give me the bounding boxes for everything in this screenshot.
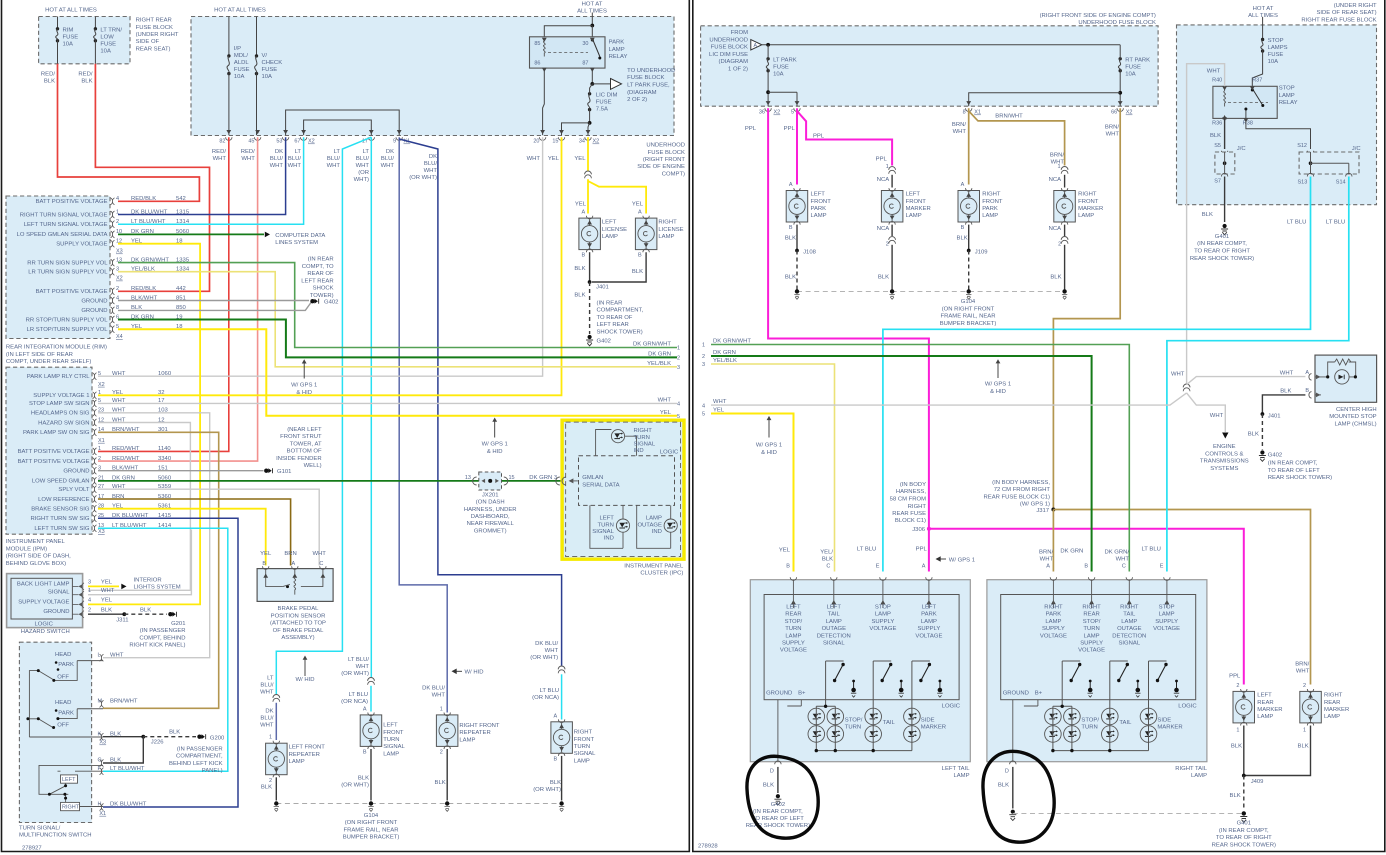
svg-text:G401: G401 xyxy=(1237,821,1251,827)
wire K BLK to J226 xyxy=(103,736,143,738)
svg-text:X3: X3 xyxy=(116,249,123,255)
wire V/CHECK fuse feed xyxy=(256,17,258,56)
wire relay87 to LIC DIM fuse xyxy=(590,84,593,94)
svg-text:(IN REAR COMPT,: (IN REAR COMPT, xyxy=(1197,241,1247,247)
svg-text:OUTAGE: OUTAGE xyxy=(822,626,847,632)
wire pin45 inside box xyxy=(256,74,258,136)
wire LT BLU (OR NCA) lower right xyxy=(561,674,563,719)
wire pin82 inside box xyxy=(228,74,230,136)
left tail lamp coil symbol 2 xyxy=(900,682,902,690)
BPPS internals xyxy=(266,569,323,595)
svg-text:(OR WHT): (OR WHT) xyxy=(341,671,369,677)
wire DK BLU/WHT (OR WHT) to right turn xyxy=(399,139,561,666)
svg-text:36: 36 xyxy=(759,110,765,116)
svg-text:LAMP: LAMP xyxy=(1257,714,1273,720)
svg-text:TO REAR OF: TO REAR OF xyxy=(597,315,633,321)
left tail lamp switch 1 xyxy=(826,660,844,662)
svg-text:SIDE OF: SIDE OF xyxy=(136,39,160,45)
svg-text:10A: 10A xyxy=(1268,59,1279,65)
svg-text:NCA: NCA xyxy=(877,226,890,232)
svg-text:YEL: YEL xyxy=(632,201,644,207)
W GPS arrow page2 wire5 xyxy=(768,417,770,438)
svg-text:LAMP: LAMP xyxy=(1084,633,1100,639)
svg-text:278928: 278928 xyxy=(698,844,718,850)
svg-text:B+: B+ xyxy=(1035,691,1043,697)
hand-drawn circle right tail ground xyxy=(983,751,1054,842)
left front turn signal lamp xyxy=(360,715,382,747)
underhood fuse block pin arrows xyxy=(226,130,231,134)
svg-text:G402: G402 xyxy=(1268,452,1282,458)
svg-text:SPLY VOLT: SPLY VOLT xyxy=(58,487,90,493)
svg-text:IND: IND xyxy=(604,536,614,542)
svg-text:LR STOP/TURN SUPPLY VOL: LR STOP/TURN SUPPLY VOL xyxy=(27,327,109,333)
svg-text:BLK: BLK xyxy=(1230,793,1241,799)
svg-text:BLK: BLK xyxy=(101,607,112,613)
right tail lamp LED cluster stop/turn xyxy=(1045,708,1062,725)
svg-text:SUPPLY: SUPPLY xyxy=(1080,641,1103,647)
wire LT BLU/WHT 1314 xyxy=(118,137,304,224)
svg-text:BLK: BLK xyxy=(140,607,151,613)
svg-text:2: 2 xyxy=(440,750,443,756)
wire RED/BLK 442 from LT TRN fuse xyxy=(95,64,209,291)
stop lamp relay xyxy=(1213,86,1277,118)
svg-text:SHOCK: SHOCK xyxy=(313,286,334,292)
svg-text:LEFT REAR: LEFT REAR xyxy=(301,278,333,284)
instrument panel cluster (IPC) box xyxy=(562,420,684,559)
svg-text:SUPPLY: SUPPLY xyxy=(917,626,940,632)
wire2 page2 DK GRN xyxy=(711,356,1092,572)
svg-text:SIGNAL: SIGNAL xyxy=(823,641,845,647)
svg-text:BLK: BLK xyxy=(435,780,446,786)
svg-text:TURN: TURN xyxy=(1081,725,1097,731)
wire RIM fuse feed xyxy=(57,17,59,29)
svg-text:X2: X2 xyxy=(774,110,781,116)
svg-text:DK BLU/: DK BLU/ xyxy=(422,686,445,692)
svg-text:MARKER: MARKER xyxy=(921,725,946,731)
svg-text:1: 1 xyxy=(702,343,705,349)
svg-text:A: A xyxy=(789,182,793,188)
right tail lamp LED cluster tail xyxy=(1102,708,1119,725)
svg-text:(OR NCA): (OR NCA) xyxy=(341,699,368,705)
svg-text:FUSE: FUSE xyxy=(1268,52,1284,58)
svg-text:20: 20 xyxy=(533,139,539,145)
svg-text:RIGHT TURN SW SIG: RIGHT TURN SW SIG xyxy=(30,516,89,522)
wire LT BLU S13 xyxy=(883,177,1311,572)
svg-text:9: 9 xyxy=(393,139,396,145)
W GPS arrow page2 wire2 xyxy=(997,361,999,379)
wire fuse1 to box bottom xyxy=(57,41,59,64)
wire LT TRN fuse feed xyxy=(94,17,96,29)
wire CHMSL BLK dashed xyxy=(1261,414,1263,450)
wire BLK dashed to G402 xyxy=(589,282,591,334)
left front repeater lamp xyxy=(266,743,288,775)
svg-text:REAR: REAR xyxy=(1324,700,1340,706)
svg-text:4: 4 xyxy=(88,598,91,604)
svg-text:G401: G401 xyxy=(1215,234,1229,240)
right tail lamp xyxy=(987,580,1207,762)
IPC logic box xyxy=(579,456,675,506)
svg-text:SIDE: SIDE xyxy=(1157,718,1171,724)
underhood fuse block (page1) xyxy=(191,17,674,136)
wire5 page2 YEL xyxy=(711,414,794,572)
right rear fuse block (page2) xyxy=(1177,25,1377,205)
svg-text:(ON RIGHT FRONT: (ON RIGHT FRONT xyxy=(942,306,995,312)
left tail lamp coil symbol 1 xyxy=(853,682,855,690)
svg-text:A: A xyxy=(1305,370,1309,376)
left tail lamp LED cluster tail xyxy=(865,708,882,725)
svg-text:4: 4 xyxy=(677,402,680,408)
fuse RT PARK FUSE 10A xyxy=(1119,57,1122,60)
svg-text:SUPPLY: SUPPLY xyxy=(782,641,805,647)
svg-text:LAMP: LAMP xyxy=(1279,93,1295,99)
wire hazard signal WHT xyxy=(88,530,191,595)
wire G BLK to J226 xyxy=(103,737,143,763)
svg-text:WHT): WHT) xyxy=(354,177,369,183)
svg-text:HOT AT ALL TIMES: HOT AT ALL TIMES xyxy=(214,8,266,14)
svg-text:PPL: PPL xyxy=(876,156,888,162)
svg-text:BLK: BLK xyxy=(574,292,585,298)
svg-text:G402: G402 xyxy=(597,338,611,344)
svg-text:LEFT: LEFT xyxy=(811,192,826,198)
svg-text:WHT: WHT xyxy=(260,690,274,696)
svg-text:FUSE: FUSE xyxy=(596,100,612,106)
svg-text:REAR SEAT): REAR SEAT) xyxy=(136,47,171,53)
svg-text:2: 2 xyxy=(886,242,889,248)
wire IPC right turn ind loop xyxy=(596,430,637,456)
svg-text:WHT: WHT xyxy=(1210,413,1224,419)
left front marker lamp xyxy=(881,191,903,223)
svg-text:A: A xyxy=(1046,564,1050,570)
svg-text:LT BLU: LT BLU xyxy=(1326,219,1345,225)
svg-text:3: 3 xyxy=(88,580,91,586)
svg-text:(OR WHT): (OR WHT) xyxy=(530,655,558,661)
svg-text:LAMP: LAMP xyxy=(875,612,891,618)
svg-text:LAMP: LAMP xyxy=(602,234,618,240)
svg-text:10A: 10A xyxy=(773,72,784,78)
fuse RIM FUSE 10A xyxy=(56,27,59,30)
svg-text:1140: 1140 xyxy=(158,446,171,452)
stop lamp relay internals xyxy=(1224,88,1226,107)
svg-text:5: 5 xyxy=(702,412,705,418)
wire RT PARK out xyxy=(1119,71,1121,107)
svg-text:BLK: BLK xyxy=(1248,431,1259,437)
wire3 page2 YEL/BLK xyxy=(711,364,835,572)
park lamp relay internals xyxy=(543,38,545,57)
svg-text:TO REAR OF LEFT: TO REAR OF LEFT xyxy=(752,816,804,822)
svg-text:HEADLAMPS ON SIG: HEADLAMPS ON SIG xyxy=(31,411,90,417)
svg-text:LT: LT xyxy=(334,149,341,155)
ground dot lamp x=276.3 xyxy=(274,801,278,805)
wire DK GRN/WHT 1335 xyxy=(118,263,677,348)
svg-text:WHT: WHT xyxy=(381,163,395,169)
wire PPL 5 to marker xyxy=(797,111,892,166)
wire BLK/WHT 151 xyxy=(98,470,264,472)
svg-text:S13: S13 xyxy=(1298,179,1308,185)
left tail lamp pin E xyxy=(880,577,886,580)
wire LT BLU (OR NCA) lower left xyxy=(370,686,372,712)
svg-text:DK BLU/: DK BLU/ xyxy=(535,641,558,647)
svg-text:BLK: BLK xyxy=(878,275,889,281)
svg-text:34: 34 xyxy=(579,139,585,145)
svg-text:REAR SHOCK TOWER): REAR SHOCK TOWER) xyxy=(1212,842,1276,848)
park lamp relay (page1) xyxy=(530,37,606,68)
svg-text:FRONT: FRONT xyxy=(982,199,1003,205)
svg-text:V/: V/ xyxy=(262,53,268,59)
svg-text:VOLTAGE: VOLTAGE xyxy=(1040,633,1067,639)
svg-text:WHT: WHT xyxy=(112,371,126,377)
svg-text:REAR FUSE: REAR FUSE xyxy=(892,511,926,517)
svg-text:LR TURN SIGN SUPPLY VOL: LR TURN SIGN SUPPLY VOL xyxy=(28,270,108,276)
svg-text:(DIAGRAM: (DIAGRAM xyxy=(719,59,749,65)
svg-text:MARKER: MARKER xyxy=(1157,725,1182,731)
svg-text:A: A xyxy=(922,564,926,570)
svg-text:WHT: WHT xyxy=(356,664,370,670)
svg-text:66: 66 xyxy=(1111,110,1117,116)
svg-text:IND: IND xyxy=(652,529,662,535)
svg-text:A: A xyxy=(582,210,586,216)
wire BLK turn L xyxy=(370,749,372,801)
junction connector J/C left xyxy=(1215,152,1235,174)
svg-text:TURN: TURN xyxy=(845,725,861,731)
svg-text:SHOCK TOWER): SHOCK TOWER) xyxy=(597,329,643,335)
svg-text:2: 2 xyxy=(98,456,101,462)
svg-text:& HID: & HID xyxy=(990,389,1006,395)
svg-text:FUSE: FUSE xyxy=(1125,65,1141,71)
svg-text:SUPPLY VOLTAGE: SUPPLY VOLTAGE xyxy=(56,242,107,248)
svg-text:(NEAR LEFT: (NEAR LEFT xyxy=(287,427,322,433)
wire DK BLU/WHT 1315 xyxy=(118,137,286,214)
left tail lamp switch 3 xyxy=(912,660,930,662)
svg-text:WHT: WHT xyxy=(432,693,446,699)
wire S7 BLK xyxy=(1224,177,1226,223)
svg-text:COMPARTMENT,: COMPARTMENT, xyxy=(597,308,644,314)
svg-text:JX201: JX201 xyxy=(482,492,499,498)
wire LT PARK out xyxy=(767,71,769,107)
fuse LT TRN/LOW FUSE 10A xyxy=(94,27,97,30)
svg-text:A: A xyxy=(363,707,367,713)
svg-text:GROUND: GROUND xyxy=(43,609,69,615)
right tail lamp pin C xyxy=(1126,577,1132,580)
svg-text:BRN: BRN xyxy=(284,551,296,557)
svg-text:SIGNAL: SIGNAL xyxy=(1118,641,1140,647)
svg-text:TURN SIGNAL/: TURN SIGNAL/ xyxy=(19,825,61,831)
wire hazard ground BLK xyxy=(88,613,124,615)
svg-text:STOP LAMP SW SIGN: STOP LAMP SW SIGN xyxy=(29,401,90,407)
left page border xyxy=(2,0,690,852)
svg-text:DK GRN/: DK GRN/ xyxy=(1104,550,1129,556)
svg-text:VOLTAGE: VOLTAGE xyxy=(869,626,896,632)
svg-text:REPEATER: REPEATER xyxy=(289,752,320,758)
svg-text:C: C xyxy=(1122,564,1126,570)
ground G402 chmsl xyxy=(1260,450,1264,454)
svg-text:X1: X1 xyxy=(99,811,106,817)
wire WHT 1060 xyxy=(98,137,543,376)
svg-text:TO REAR OF RIGHT: TO REAR OF RIGHT xyxy=(1194,249,1250,255)
svg-text:DK: DK xyxy=(429,154,437,160)
svg-text:HOT AT: HOT AT xyxy=(582,2,603,8)
wire DK GRN 5060 IPM to IPC xyxy=(98,480,562,482)
svg-text:WHT: WHT xyxy=(713,399,727,405)
svg-text:LOGIC: LOGIC xyxy=(35,622,54,628)
svg-text:1314: 1314 xyxy=(176,219,190,225)
svg-text:GROUND: GROUND xyxy=(81,298,107,304)
svg-text:FUSE: FUSE xyxy=(262,67,278,73)
svg-text:LAMP: LAMP xyxy=(383,752,399,758)
svg-text:FRONT: FRONT xyxy=(811,199,832,205)
svg-text:BLK: BLK xyxy=(998,783,1009,789)
svg-text:COMPARTMENT,: COMPARTMENT, xyxy=(176,754,223,760)
svg-text:3: 3 xyxy=(677,365,680,371)
svg-text:MDL/: MDL/ xyxy=(234,53,248,59)
svg-text:SUPPLY: SUPPLY xyxy=(1042,626,1065,632)
svg-text:DETECTION: DETECTION xyxy=(1112,633,1146,639)
svg-text:(IN REAR COMPT,: (IN REAR COMPT, xyxy=(1268,461,1318,467)
svg-text:SUPPLY VOLTAGE 1: SUPPLY VOLTAGE 1 xyxy=(33,393,89,399)
right tail lamp pin E xyxy=(1164,577,1170,580)
svg-text:B: B xyxy=(262,561,266,567)
svg-text:(IN BODY HARNESS,: (IN BODY HARNESS, xyxy=(992,480,1050,486)
svg-text:J109: J109 xyxy=(975,249,988,255)
svg-text:10A: 10A xyxy=(100,49,111,55)
wire4 page2 WHT xyxy=(711,393,1187,405)
arrow to engine controls xyxy=(1222,433,1228,439)
svg-text:REAR SHOCK TOWER): REAR SHOCK TOWER) xyxy=(1268,475,1332,481)
wire L pin internal xyxy=(77,660,103,662)
svg-text:YEL: YEL xyxy=(575,201,587,207)
svg-text:FRONT STRUT: FRONT STRUT xyxy=(280,434,322,440)
hazard switch logic box xyxy=(11,578,72,619)
wire NCA marker R xyxy=(1064,175,1066,188)
wire JC right internal xyxy=(1311,152,1349,174)
wire relay87 out xyxy=(591,68,593,84)
svg-text:3: 3 xyxy=(702,362,705,368)
svg-text:X2: X2 xyxy=(98,382,105,388)
right tail lamp switch 3 xyxy=(1149,660,1167,662)
svg-text:PARK: PARK xyxy=(58,662,74,668)
svg-text:OFF: OFF xyxy=(57,675,69,681)
fuse LT PARK FUSE 10A xyxy=(766,57,769,60)
svg-text:YEL: YEL xyxy=(779,548,791,554)
page2 underhood pins xyxy=(766,101,771,105)
wire BRN/WHT J317 to right marker xyxy=(1053,510,1310,685)
svg-text:542: 542 xyxy=(176,196,186,202)
wire stop lamps fuse feed xyxy=(1262,17,1264,40)
svg-text:E: E xyxy=(1160,564,1164,570)
svg-text:(OR NCA): (OR NCA) xyxy=(532,695,559,701)
svg-text:TOWER, AT: TOWER, AT xyxy=(290,441,322,447)
svg-text:(UNDER RIGHT: (UNDER RIGHT xyxy=(1334,3,1377,9)
svg-text:FRONT: FRONT xyxy=(1078,199,1099,205)
svg-text:B: B xyxy=(638,253,642,259)
fuse LIC DIM FUSE 7.5A xyxy=(588,92,591,95)
wire left tail BLK xyxy=(777,767,779,793)
svg-text:SUPPLY VOLTAGE: SUPPLY VOLTAGE xyxy=(18,599,69,605)
ground dot front lamp x=892.1 xyxy=(890,289,894,293)
svg-text:FUSE BLOCK: FUSE BLOCK xyxy=(648,150,685,156)
svg-text:& HID: & HID xyxy=(761,450,777,456)
left license lamp xyxy=(579,218,601,250)
svg-text:RED/: RED/ xyxy=(78,72,92,78)
wire BLK turn R xyxy=(561,756,563,801)
svg-text:BLK: BLK xyxy=(1231,744,1242,750)
svg-text:TO REAR OF RIGHT: TO REAR OF RIGHT xyxy=(1216,835,1272,841)
svg-text:TAIL: TAIL xyxy=(883,720,896,726)
wire jumper pin53-pin9 xyxy=(286,110,400,135)
wire to pin15 xyxy=(562,123,590,135)
svg-text:J401: J401 xyxy=(1268,413,1281,419)
rear integration module (RIM) xyxy=(6,196,110,339)
left tail lamp pin A xyxy=(926,577,932,580)
right page border xyxy=(693,0,1385,852)
svg-text:(OR WHT): (OR WHT) xyxy=(533,787,561,793)
svg-text:PARK LAMP SW ON SIG: PARK LAMP SW ON SIG xyxy=(23,430,90,436)
svg-text:WHT: WHT xyxy=(110,652,124,658)
svg-text:BLK: BLK xyxy=(81,79,92,85)
wire RED/WHT 3340 xyxy=(98,137,258,461)
svg-text:RIGHT: RIGHT xyxy=(1044,605,1063,611)
svg-text:R40: R40 xyxy=(1212,77,1222,83)
wire RED/BLK 542 from RIM fuse xyxy=(58,64,200,202)
svg-text:1315: 1315 xyxy=(176,209,190,215)
ground right tail xyxy=(1011,810,1015,814)
wire LT BLU/WHT (OR WHT) turn lamp xyxy=(370,137,372,677)
svg-text:SIGNAL: SIGNAL xyxy=(48,590,70,596)
svg-text:RIGHT TAIL: RIGHT TAIL xyxy=(1175,766,1207,772)
svg-text:4: 4 xyxy=(116,196,119,202)
svg-text:CENTER HIGH: CENTER HIGH xyxy=(1336,407,1377,413)
svg-text:WHT: WHT xyxy=(953,129,967,135)
instrument panel module (IPM) xyxy=(6,367,92,534)
wire BRN/WHT 66 to J317 xyxy=(1053,108,1120,509)
svg-text:W/ GPS 1: W/ GPS 1 xyxy=(949,557,975,563)
svg-text:58 CM FROM: 58 CM FROM xyxy=(890,497,926,503)
svg-text:CLUSTER (IPC): CLUSTER (IPC) xyxy=(640,571,683,577)
svg-text:BLK: BLK xyxy=(44,79,55,85)
svg-text:X1: X1 xyxy=(974,110,981,116)
svg-text:NCA: NCA xyxy=(1049,226,1062,232)
svg-text:85: 85 xyxy=(534,41,540,47)
svg-text:IND: IND xyxy=(634,448,644,454)
svg-text:W/ GPS 1: W/ GPS 1 xyxy=(482,442,508,448)
svg-text:LEFT FRONT: LEFT FRONT xyxy=(289,745,326,751)
ground G101 xyxy=(264,469,268,473)
wire to pin5 xyxy=(768,92,797,106)
svg-text:GROMMET): GROMMET) xyxy=(474,528,507,534)
svg-text:LT: LT xyxy=(295,149,302,155)
connector triangle TO UNDERHOOD FUSE BLOCK xyxy=(611,79,622,90)
svg-text:LEFT: LEFT xyxy=(602,220,617,226)
svg-text:RIGHT: RIGHT xyxy=(1078,192,1097,198)
svg-text:(IN PASSENGER: (IN PASSENGER xyxy=(140,628,186,634)
svg-text:LT BLU: LT BLU xyxy=(1287,219,1306,225)
wire to pin8 xyxy=(969,93,1120,106)
right front marker lamp xyxy=(1054,191,1076,223)
svg-text:BLOCK C1): BLOCK C1) xyxy=(895,518,926,524)
svg-text:(ON DASH: (ON DASH xyxy=(476,500,505,506)
svg-text:RT PARK: RT PARK xyxy=(1125,58,1150,64)
W/ HID arrow left xyxy=(304,657,306,676)
svg-text:RIGHT KICK PANEL): RIGHT KICK PANEL) xyxy=(129,643,185,649)
svg-text:RED/WHT: RED/WHT xyxy=(112,446,140,452)
svg-text:2 OF 2): 2 OF 2) xyxy=(627,97,647,103)
svg-text:BACK LIGHT LAMP: BACK LIGHT LAMP xyxy=(17,581,70,587)
svg-text:BLK: BLK xyxy=(957,236,968,242)
svg-text:RIGHT REAR: RIGHT REAR xyxy=(136,18,172,24)
svg-text:INSTRUMENT PANEL: INSTRUMENT PANEL xyxy=(6,539,66,545)
svg-text:MARKER: MARKER xyxy=(1324,707,1349,713)
svg-text:PARK: PARK xyxy=(982,206,998,212)
svg-text:FRONT: FRONT xyxy=(574,737,595,743)
